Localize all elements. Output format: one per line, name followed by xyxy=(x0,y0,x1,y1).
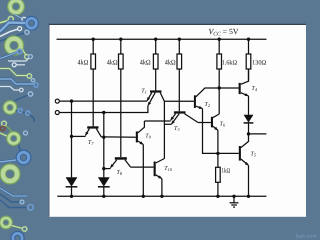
VCC rail wire xyxy=(57,38,267,40)
green donut E xyxy=(7,132,21,146)
wire node to T4 base xyxy=(219,87,238,89)
resistor R6 130 xyxy=(246,39,251,81)
transistor T8 xyxy=(110,157,130,168)
transistor T2 xyxy=(194,88,219,153)
svg-text:4kΩ: 4kΩ xyxy=(165,59,176,67)
node dot input B branch xyxy=(102,111,105,114)
blue donut bottom cut xyxy=(11,231,24,240)
wire input A down to diode D1 xyxy=(71,101,73,177)
diode D1 xyxy=(66,177,78,196)
dark red ring xyxy=(1,126,5,130)
thin trace from donut to small blue ring xyxy=(15,15,23,19)
resistor R7 1k xyxy=(216,153,221,196)
wire T3 collector to T6 base xyxy=(198,122,211,124)
svg-text:T6: T6 xyxy=(220,122,226,128)
input wire A xyxy=(59,100,147,102)
input terminal B xyxy=(55,111,59,115)
blue donut F xyxy=(16,150,31,165)
diode D3 xyxy=(244,115,254,134)
svg-text:fppt.com: fppt.com xyxy=(296,234,318,240)
wire T8 collector to T10 base xyxy=(131,166,154,168)
output wire xyxy=(249,133,267,135)
wire T1 collector to T2 base xyxy=(164,100,194,102)
wire T7 emitter to left vertical xyxy=(72,135,86,137)
node dot input A / T7 branch xyxy=(70,99,73,102)
svg-text:1.6kΩ: 1.6kΩ xyxy=(222,60,237,67)
svg-text:T7: T7 xyxy=(88,140,94,146)
node dot T8 emitter tap xyxy=(102,167,105,170)
resistor R3 4k xyxy=(153,39,158,90)
svg-text:1kΩ: 1kΩ xyxy=(222,168,231,175)
transistor T1 multi-emitter xyxy=(147,90,164,105)
white slide panel xyxy=(49,24,306,217)
node dot left vertical xyxy=(70,135,73,138)
svg-text:4kΩ: 4kΩ xyxy=(107,59,118,67)
output node dot xyxy=(247,132,250,135)
green donut D xyxy=(3,101,17,115)
node dot 1.6k / T4 base / T2 collector xyxy=(218,86,221,89)
wire T3 emitter2 to T10 collector line xyxy=(164,123,171,125)
decorative circuit-board strip (left) xyxy=(0,0,38,240)
svg-text:4kΩ: 4kΩ xyxy=(78,59,89,67)
ground rail wire xyxy=(57,195,266,197)
svg-text:T8: T8 xyxy=(117,170,123,176)
small rings and thin traces y 55-70 xyxy=(8,58,29,61)
ground symbol xyxy=(230,196,239,207)
svg-text:T2: T2 xyxy=(205,102,211,108)
blue ring at 30.5,94 with trace xyxy=(13,95,28,102)
small blue ring right of E xyxy=(24,131,28,135)
wire T2 emitter node to T5 base xyxy=(218,152,239,154)
small green ring + trace xyxy=(2,121,7,126)
wire input B node down to D2 xyxy=(103,113,105,178)
transistor T10 xyxy=(154,159,165,197)
big green donut 2 xyxy=(4,36,23,55)
diagonal blue traces bottom xyxy=(0,188,27,196)
svg-text:4kΩ: 4kΩ xyxy=(140,59,151,67)
green ring + trace xyxy=(0,20,9,23)
svg-text:T5: T5 xyxy=(251,152,257,158)
thin traces with small rings xyxy=(0,29,18,36)
node dots on VCC rail xyxy=(92,38,251,41)
wire T3 emitter1 to T9 collector xyxy=(144,120,170,122)
node dot T5 base xyxy=(216,152,219,155)
svg-text:VCC = 5V: VCC = 5V xyxy=(209,27,239,37)
chain of small blue rings xyxy=(16,110,19,112)
green trace to small ring xyxy=(23,50,26,55)
transistor T3 two-emitter xyxy=(171,111,198,124)
transistor T6 xyxy=(211,114,219,153)
svg-text:T10: T10 xyxy=(164,166,173,172)
transistor T4 xyxy=(239,69,249,115)
transistor T9 xyxy=(136,121,145,196)
svg-text:T3: T3 xyxy=(174,126,180,132)
big blue donut xyxy=(25,16,39,30)
node dot diode D2 top xyxy=(102,136,105,139)
resistor R4 4k xyxy=(177,39,182,111)
big green donut G xyxy=(0,164,20,184)
wire T7 collector to T9 base xyxy=(101,136,136,138)
green elbow trace to ring xyxy=(0,69,27,76)
blue ring with trace xyxy=(0,52,17,58)
thick blue trace going left then down-left xyxy=(0,23,25,32)
wire T2 base node down to T10 collector xyxy=(163,101,165,158)
diode D2 xyxy=(98,177,110,196)
resistor R2 4k xyxy=(119,39,124,157)
big green donut top xyxy=(8,0,25,15)
resistor R5 1.6k xyxy=(217,39,222,114)
horizontal blue trace near y=83 xyxy=(0,79,34,84)
resistor R1 4k xyxy=(91,39,96,126)
input wire B xyxy=(59,106,147,113)
green ring bottom xyxy=(0,216,12,229)
svg-text:130Ω: 130Ω xyxy=(252,60,266,67)
svg-text:T9: T9 xyxy=(145,134,151,140)
transistor T5 xyxy=(239,134,249,196)
transistor T7 xyxy=(85,126,101,137)
node dot ground tap xyxy=(232,195,235,198)
input terminal A xyxy=(55,99,59,103)
wire T8 emitter to D2 lead xyxy=(104,168,111,170)
svg-text:T4: T4 xyxy=(252,86,258,92)
node dots on ground rail xyxy=(70,195,250,198)
VCC label xyxy=(209,27,239,37)
svg-text:T1: T1 xyxy=(141,89,147,95)
